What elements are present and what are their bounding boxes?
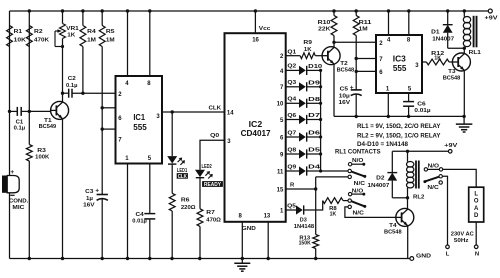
node T1 collector / C2 junction [61,92,64,95]
svg-text:RL2: RL2 [413,195,424,201]
diode D9 on Q3 output [286,80,321,91]
wire: IC3 pin 5 to C6 [408,93,410,102]
svg-text:0.1µ: 0.1µ [14,125,26,131]
svg-text:1M: 1M [87,37,96,43]
wire: IC1 pin 8 to +9V rail [149,11,151,76]
transistor T4 [384,198,414,259]
svg-text:Q3: Q3 [287,80,297,86]
svg-text:N/O: N/O [428,163,440,169]
wire: LED2 to R7 [199,178,201,209]
svg-text:IC2: IC2 [249,120,263,129]
svg-text:100K: 100K [35,155,50,161]
svg-text:+: + [350,85,354,92]
wire: +9V top supply rail [10,10,491,12]
svg-text:T4: T4 [389,223,397,229]
wire: C2 to IC1 pin 2 [72,92,116,94]
op-amp/timer IC1 555 [116,76,163,164]
svg-text:R4: R4 [87,29,96,35]
wire: VR1 to T1 collector node [62,47,64,94]
svg-text:CD4017: CD4017 [241,129,271,138]
svg-text:Q7: Q7 [287,130,297,136]
wire: left border R1/mic column [9,11,11,259]
svg-text:COND.: COND. [9,199,29,205]
svg-text:BC548: BC548 [384,229,402,235]
svg-text:D8: D8 [308,97,321,103]
svg-text:D4-D10 = 1N4148: D4-D10 = 1N4148 [357,141,408,148]
svg-text:R11: R11 [359,20,373,26]
relay contact SW2 (RL1b) [348,188,366,216]
svg-text:R6: R6 [181,197,190,203]
svg-text:1M: 1M [106,37,115,43]
wire: IC1 pin 5 to C4 [149,164,151,214]
svg-text:N: N [475,251,479,257]
svg-text:C5: C5 [340,87,348,93]
svg-text:50Hz: 50Hz [454,238,469,244]
node T1 base junction [8,110,11,113]
wire: R5 column joining IC1 pins 6 and 7 [101,108,103,129]
svg-text:230V AC: 230V AC [451,232,475,238]
svg-text:Q2: Q2 [287,64,297,70]
svg-text:10: 10 [277,102,284,108]
node IC3 pin1 ground junction [387,115,390,118]
relay coil RL1 [463,11,481,56]
wire: diode bus to upper RL1 contact [321,170,348,172]
svg-text:GND: GND [416,254,431,260]
node R4/pin2 junction [81,92,84,95]
counter IC2 CD4017 [225,33,286,222]
svg-text:1K: 1K [330,211,337,217]
node L terminal [446,245,450,257]
resistor R10 [318,11,337,42]
diode D3 on Q5 output [286,204,314,230]
wire: IC2 pin 13 to ground [267,222,269,259]
wire: IC2 pin 16 to +9V (Vcc) [255,11,271,33]
resistor R2 [26,26,49,47]
wire: +9V feed for RL2 [392,150,448,152]
svg-text:C6: C6 [417,101,425,107]
wire: LED1 to R6 [171,164,173,193]
svg-text:Q8: Q8 [287,147,297,153]
svg-text:16V: 16V [83,203,95,209]
svg-text:T2: T2 [340,61,347,67]
svg-text:R1: R1 [14,29,23,35]
svg-text:D6: D6 [308,131,321,137]
svg-text:A: A [474,206,479,212]
transistor T3 [443,48,471,116]
node GND terminal [410,254,431,261]
wire: LED1 drop [171,112,173,156]
svg-text:D4: D4 [308,165,321,171]
wire: IC2 pin 15 reset row [286,182,316,189]
svg-text:1K: 1K [67,33,76,39]
relay coil RL2 [407,151,425,200]
svg-text:1K: 1K [434,56,441,62]
wire: IC1 pin 1 to ground rail [127,164,129,259]
resistor R3 [26,111,50,258]
svg-text:Q4: Q4 [287,97,297,103]
wire: local ground bus [334,115,464,117]
svg-text:D5: D5 [308,148,321,154]
wire: IC3 pin3 to R12 [422,61,426,63]
svg-text:11: 11 [277,169,284,175]
node IC1 pin6 junction [101,106,104,109]
svg-text:R9: R9 [303,40,312,46]
node +9V terminal [485,9,498,22]
wire: IC1 pin 3 output to IC2 pin 14 (CLK) [162,111,225,113]
wire: D3 cathode to R8 [304,201,323,210]
svg-text:10µ: 10µ [339,93,350,99]
svg-text:IC1: IC1 [133,113,145,122]
svg-text:READY: READY [204,182,222,188]
node IC3 pin6 junction [355,70,358,73]
svg-text:R5: R5 [106,29,115,35]
svg-text:LED2: LED2 [202,164,213,170]
wire: SW2 N/C pole to T4 base [345,207,396,218]
svg-text:RL1 = 9V, 150Ω, 2C/O RELAY: RL1 = 9V, 150Ω, 2C/O RELAY [357,123,441,130]
diode D4 on Q9 output [286,164,321,175]
wire: SW3 N/O to LOAD [443,169,477,187]
svg-text:R: R [290,182,295,188]
resistor R11 [353,11,372,59]
timer IC3 555 [376,35,422,93]
node T2 collector junction [332,41,335,44]
LED1 [167,156,188,180]
svg-text:1µ: 1µ [86,196,93,202]
resistor R13 [299,235,319,259]
svg-text:L: L [474,191,478,197]
node RL1 coil bottom [463,47,466,50]
resistor R1 [7,26,27,47]
svg-text:1N4148: 1N4148 [294,224,314,230]
svg-text:D2: D2 [376,175,384,181]
transistor T1 [29,93,68,258]
component notes [357,123,441,148]
wire: IC2 pin 8 to ground [241,222,243,259]
capacitor C6 [403,101,431,116]
svg-text:RL2 = 9V, 150Ω, 1C/O RELAY: RL2 = 9V, 150Ω, 1C/O RELAY [357,132,441,139]
svg-text:150K: 150K [299,241,311,247]
wire: IC3 pin 1 to local ground [387,93,389,116]
resistor R8 [323,198,348,218]
wire: IC2 pin 3 (Q0) to LED2 [200,140,225,169]
diode D2 (freewheel) [368,151,408,198]
svg-text:15: 15 [277,187,284,193]
svg-text:T1: T1 [44,118,52,124]
svg-text:10K: 10K [14,37,27,43]
capacitor C5 (electrolytic) [339,85,362,117]
svg-text:GND: GND [242,226,256,232]
svg-text:1K: 1K [304,47,312,53]
capacitor C2 [63,76,78,98]
wire: ground bottom rail [10,258,410,260]
svg-text:R10: R10 [318,20,331,26]
potentiometer VR1 [55,11,80,48]
svg-text:Q5: Q5 [287,204,297,210]
wire: IC3 pin 8 to +9V [408,11,410,35]
wire: diode OR bus [320,70,322,171]
svg-text:N/C: N/C [353,210,364,216]
svg-text:+9V: +9V [485,16,498,22]
node N terminal [474,245,479,257]
resistor R9 [300,40,315,59]
svg-text:1M: 1M [359,27,368,33]
wire: IC3 pin 4 to +9V [388,11,390,35]
svg-text:D3: D3 [300,217,307,223]
svg-text:D1: D1 [431,30,439,36]
svg-text:13: 13 [264,214,271,220]
svg-text:N/O: N/O [352,158,364,164]
svg-text:470Ω: 470Ω [206,218,221,224]
svg-text:0.01µ: 0.01µ [414,108,430,114]
svg-text:C2: C2 [68,76,76,82]
svg-text:+9V: +9V [444,143,457,149]
diode D1 (freewheel) [431,11,464,48]
node IC3 pin7 junction [355,57,358,60]
ground symbol (local) [456,116,473,132]
wire: SW3 pole to L terminal [442,176,447,245]
svg-text:1N4007: 1N4007 [368,183,390,189]
svg-text:L: L [446,251,450,257]
wire: R11/C5 column to IC3 pins 7,6 [356,58,376,60]
svg-text:Q6: Q6 [287,113,297,119]
resistor R7 [197,209,221,259]
svg-text:VR1: VR1 [66,26,79,32]
svg-text:14: 14 [227,111,234,117]
mains label [451,232,475,244]
resistor R6 [169,193,196,258]
svg-text:Q1: Q1 [287,49,297,55]
wire: IC2 Q1 output to R9 [286,49,301,55]
node C6 ground junction [407,115,410,118]
svg-text:+: + [10,169,14,176]
svg-text:0.01µ: 0.01µ [132,218,147,224]
transistor T2 [322,42,354,116]
ground symbol (main rail) [234,259,250,272]
svg-text:D9: D9 [308,80,321,86]
node LED1 junction on CLK line [171,110,174,113]
svg-text:LED1: LED1 [177,168,188,174]
svg-text:IC3: IC3 [393,54,407,63]
diode D8 on Q4 output [286,97,321,108]
svg-text:C4: C4 [136,212,145,218]
relay contact SW3 (RL2a) [423,163,442,191]
wire: IC1 pin 4 to +9V rail [127,11,129,76]
wire: R2 column from +9V to T1 base node [28,11,30,111]
diode D6 on Q7 output [286,130,321,141]
electret microphone MIC1 (COND. MIC) [2,169,29,211]
wire: T2 collector node to IC3 pin 2 [334,41,376,43]
node +9V RL2 terminal [444,143,457,153]
svg-text:R3: R3 [37,148,46,154]
node IC1 pin7 junction [101,127,104,130]
svg-text:Q9: Q9 [287,164,297,170]
svg-text:RL1 CONTACTS: RL1 CONTACTS [335,148,381,155]
svg-text:N/C: N/C [354,181,365,187]
svg-text:N/O: N/O [352,188,364,194]
wire: pin7 node down to C3 [101,129,103,194]
svg-text:1N4007: 1N4007 [432,37,454,43]
svg-text:O: O [474,199,479,205]
resistor R12 [426,51,449,65]
svg-text:C3: C3 [85,189,93,195]
node reset junction [314,187,317,190]
diode D5 on Q8 output [286,147,321,158]
svg-text:T3: T3 [448,69,455,75]
svg-text:22K: 22K [318,27,331,33]
wire: reset node to R13 and upper contact [315,177,317,235]
svg-text:Q0: Q0 [210,133,220,139]
svg-text:555: 555 [133,123,147,132]
node C5 ground junction [355,115,358,118]
LOAD box [469,187,484,222]
svg-text:555: 555 [393,64,407,73]
resistor R5 [99,11,115,108]
svg-text:220Ω: 220Ω [181,205,196,211]
diode D7 on Q6 output [286,113,321,124]
wire: Q1 row to T2 base [315,55,322,57]
svg-text:D: D [474,213,479,219]
resistor R4 [80,11,97,93]
svg-text:470K: 470K [34,37,50,43]
svg-text:+: + [95,187,99,194]
node RL2 coil bottom [406,196,409,199]
node RL2 coil top [406,150,409,153]
svg-text:BC548: BC548 [443,75,461,81]
capacitor C4 [132,212,155,258]
node T3 emitter ground junction [462,115,465,118]
svg-text:16: 16 [252,38,259,44]
svg-text:RL1: RL1 [469,50,482,56]
svg-text:CLK: CLK [209,106,222,112]
svg-text:N/C: N/C [427,185,438,191]
capacitor C3 (electrolytic) [83,187,108,258]
LED2 [195,164,223,188]
svg-text:R7: R7 [206,210,215,216]
svg-text:MIC: MIC [12,205,24,211]
svg-text:Vcc: Vcc [259,26,271,32]
svg-text:CLK: CLK [178,174,188,180]
wire: LOAD to N terminal [475,222,477,245]
diode D10 on Q2 output [286,64,323,75]
capacitor C1 [10,107,30,131]
relay contact SW1 (RL1a) [348,158,366,187]
svg-text:R2: R2 [34,29,43,35]
svg-text:D7: D7 [308,113,321,119]
svg-text:BC548: BC548 [337,68,355,74]
svg-text:BC549: BC549 [39,124,57,130]
svg-text:16V: 16V [339,100,351,106]
svg-text:0.1µ: 0.1µ [66,83,78,89]
